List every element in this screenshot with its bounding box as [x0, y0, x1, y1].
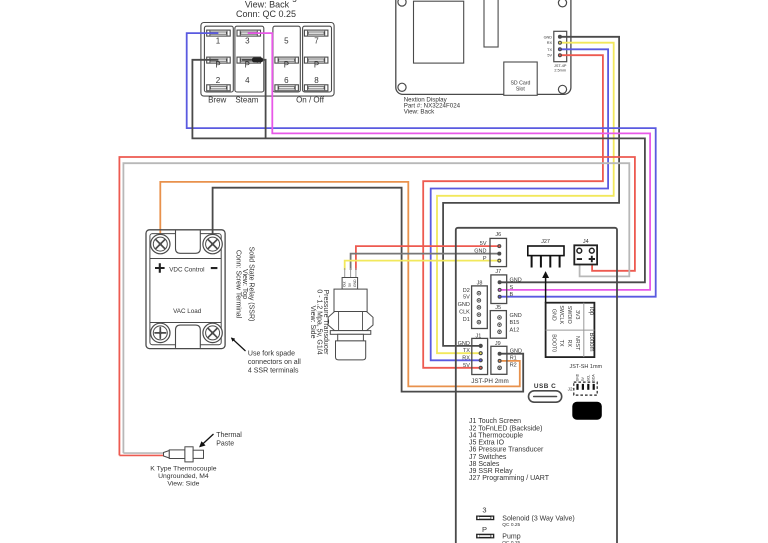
svg-text:NRST: NRST [574, 336, 580, 351]
svg-text:J7 Switches: J7 Switches [469, 454, 507, 461]
QC terminal 2 [207, 85, 231, 91]
svg-text:P: P [245, 61, 250, 70]
Nextion mounting hole BR [558, 85, 566, 93]
switch panel caption [236, 0, 296, 19]
svg-text:P: P [482, 525, 487, 534]
svg-text:GND: GND [510, 349, 522, 355]
svg-text:TX: TX [547, 48, 552, 52]
svg-text:B: B [510, 292, 514, 298]
svg-text:Slot: Slot [516, 87, 525, 93]
QC terminal 3 [237, 30, 261, 36]
QC terminal 7 [304, 30, 328, 36]
svg-text:2.5mm: 2.5mm [554, 69, 566, 73]
svg-text:SCL: SCL [586, 375, 590, 382]
svg-text:Pump: Pump [502, 534, 520, 541]
wire: Brew terminal 1 (blue) to J7 B [187, 33, 656, 297]
wire: Steam terminal 3 (magenta) to J7 S [248, 33, 650, 290]
svg-text:J5 Extra IO: J5 Extra IO [469, 440, 505, 447]
QC terminal 6 [275, 85, 299, 91]
switch On/Off body (7/8) [303, 26, 332, 92]
Nextion screen window [414, 1, 464, 63]
svg-text:Top: Top [588, 306, 594, 316]
svg-text:GND: GND [458, 341, 470, 347]
wire: transducer out (yellow) to J6 P [345, 261, 500, 270]
Nextion caption [404, 97, 461, 116]
svg-text:Use fork spade: Use fork spade [248, 350, 295, 357]
J7 connector [491, 269, 522, 304]
svg-text:J27 Programming / UART: J27 Programming / UART [469, 475, 550, 482]
svg-text:R2: R2 [510, 363, 517, 369]
svg-text:3: 3 [482, 505, 486, 514]
svg-text:connectors on all: connectors on all [248, 359, 301, 366]
svg-text:5V: 5V [348, 282, 352, 287]
SSR screw BR [203, 323, 222, 342]
wire: transducer GND (gray) to J6 GND [351, 254, 500, 270]
wire: Nextion RX (yellow) to J1 TX [437, 43, 614, 354]
svg-text:1: 1 [216, 36, 221, 45]
SSR body [146, 230, 225, 349]
svg-text:5V: 5V [463, 363, 470, 369]
svg-text:J1 Touch Screen: J1 Touch Screen [469, 418, 521, 425]
title (cut off descender) [292, 0, 297, 2]
svg-text:7: 7 [314, 36, 319, 45]
svg-text:GND: GND [550, 309, 556, 321]
SSR face text [155, 263, 217, 315]
svg-text:4: 4 [245, 76, 250, 85]
svg-text:5V: 5V [581, 376, 585, 381]
svg-text:RX: RX [462, 355, 470, 361]
QC terminal P brew [207, 57, 231, 63]
pump legend [476, 525, 521, 543]
svg-text:D2: D2 [463, 288, 470, 294]
svg-text:Thermal: Thermal [216, 432, 242, 439]
J6 connector [474, 232, 506, 266]
svg-text:SWDIO: SWDIO [566, 306, 572, 324]
switch body (5/6) [273, 26, 300, 92]
svg-text:5: 5 [284, 36, 289, 45]
connector legend list [469, 418, 550, 482]
svg-text:GND: GND [353, 279, 357, 287]
svg-text:P: P [483, 256, 487, 262]
J27 header [528, 239, 564, 267]
wire blob on steam P terminal [252, 58, 263, 63]
svg-text:Conn: Screw Terminal: Conn: Screw Terminal [235, 250, 242, 319]
switch labels [208, 96, 325, 105]
svg-text:P: P [314, 61, 319, 70]
QC terminal P col4 [304, 57, 328, 63]
svg-text:Bottom: Bottom [588, 333, 594, 352]
svg-text:B15: B15 [510, 320, 520, 326]
svg-text:Ungrounded, M4: Ungrounded, M4 [158, 473, 209, 480]
svg-text:8: 8 [314, 76, 319, 85]
J5 connector [490, 305, 521, 338]
svg-text:5V: 5V [547, 54, 552, 58]
wire: Brew P (black) to J7 GND [192, 60, 645, 282]
Nextion display board [396, 0, 571, 94]
SSR screw TL [151, 234, 170, 253]
wire: thermocouple red to J4 + [119, 157, 635, 455]
svg-text:View: Back: View: Back [404, 109, 435, 116]
switch Steam body [235, 26, 264, 92]
svg-text:J27: J27 [541, 239, 550, 245]
main controller board [456, 228, 617, 543]
USB C connector [529, 383, 562, 402]
svg-text:View: Side: View: Side [309, 306, 316, 339]
Nextion connector pins [558, 35, 562, 57]
svg-text:6: 6 [284, 76, 289, 85]
svg-text:SWCLK: SWCLK [558, 305, 564, 324]
svg-text:On / Off: On / Off [296, 96, 325, 105]
buzzer (black block) [572, 402, 602, 420]
wire: thermocouple pair horizontal to probe [119, 453, 166, 455]
wire: SSR - (black) to J9 GND [213, 188, 524, 392]
svg-text:Out: Out [343, 281, 347, 287]
QC terminal P steam [237, 57, 261, 63]
Nextion mounting hole BL [398, 83, 406, 91]
svg-text:g: g [292, 0, 297, 2]
svg-text:4 SSR terminals: 4 SSR terminals [248, 367, 299, 374]
svg-text:JST-4P: JST-4P [554, 64, 567, 68]
wire: Nextion GND (black) to J1 GND [443, 37, 619, 346]
svg-text:TX: TX [463, 348, 470, 354]
J4 connector [574, 239, 597, 264]
svg-text:3V3: 3V3 [574, 310, 580, 319]
solenoid legend [476, 505, 575, 528]
svg-text:P: P [284, 61, 289, 70]
switch panel outer body [201, 23, 334, 97]
wire: Nextion 5V (red) to J1 5V [423, 55, 603, 368]
switch Brew body [204, 26, 233, 92]
svg-text:GND: GND [510, 277, 522, 283]
svg-text:3: 3 [245, 36, 250, 45]
wire: Nextion TX (blue) to J1 RX [431, 49, 608, 360]
svg-text:JST-SH 1mm: JST-SH 1mm [569, 364, 602, 370]
arrow from table to J27 [545, 273, 547, 303]
Nextion mounting hole TL [398, 0, 406, 6]
svg-text:Brew: Brew [208, 96, 226, 105]
thermal paste note + arrow [200, 432, 242, 448]
svg-text:P: P [215, 61, 220, 70]
svg-text:J7: J7 [495, 269, 501, 275]
svg-text:J4: J4 [583, 239, 589, 245]
svg-text:S: S [510, 285, 514, 291]
JST-PH label [471, 378, 508, 385]
svg-text:GND: GND [576, 373, 580, 381]
svg-text:GND: GND [544, 35, 553, 39]
svg-text:Solenoid (3 Way Valve): Solenoid (3 Way Valve) [502, 515, 574, 522]
pressure transducer rotated caption [309, 289, 329, 355]
svg-text:5V: 5V [463, 295, 470, 301]
svg-text:CLK: CLK [459, 309, 470, 315]
svg-text:2: 2 [216, 76, 221, 85]
svg-text:GND: GND [474, 249, 486, 255]
svg-text:J9 SSR Relay: J9 SSR Relay [469, 468, 513, 475]
J2 connector (dashed) [568, 373, 598, 395]
svg-text:J4 Thermocouple: J4 Thermocouple [469, 432, 523, 439]
svg-text:GND: GND [458, 302, 470, 308]
QC terminal 1 [207, 30, 231, 36]
svg-text:SDA: SDA [592, 374, 596, 382]
J8 connector [458, 280, 488, 328]
svg-text:TX: TX [558, 340, 564, 347]
svg-text:R1: R1 [510, 356, 517, 362]
wire: Steam P (black) joins GND run [242, 60, 266, 139]
Nextion mounting hole TR [558, 0, 566, 7]
SSR note + arrow [232, 338, 302, 374]
JST-SH label [569, 364, 602, 370]
svg-text:VAC Load: VAC Load [173, 308, 202, 315]
svg-text:View: Side: View: Side [167, 480, 199, 487]
svg-text:VDC Control: VDC Control [169, 266, 204, 273]
J9 connector [491, 341, 522, 375]
svg-text:USB C: USB C [534, 383, 556, 390]
thermocouple probe [164, 447, 204, 462]
svg-text:BOOT0: BOOT0 [550, 334, 556, 352]
wire: thermocouple gray to J4 - [123, 163, 629, 453]
SSR screw TR [203, 234, 222, 253]
svg-text:Steam: Steam [235, 96, 258, 105]
QC terminal 8 [304, 85, 328, 91]
pressure transducer bare leads [345, 268, 356, 279]
svg-text:RX: RX [566, 340, 572, 348]
wire: transducer 5V (red) to J6 5V [356, 246, 499, 270]
svg-text:Paste: Paste [216, 440, 234, 447]
svg-text:A12: A12 [510, 327, 520, 333]
SSR screw BL [151, 323, 170, 342]
svg-text:D1: D1 [463, 317, 470, 323]
Nextion JST-4P connector [544, 31, 567, 72]
svg-text:J2: J2 [568, 387, 573, 392]
svg-text:J6 Pressure Transducer: J6 Pressure Transducer [469, 447, 544, 454]
thermocouple caption [150, 466, 216, 488]
pressure transducer body [328, 278, 373, 360]
svg-text:J2 ToFnLED (Backside): J2 ToFnLED (Backside) [469, 425, 542, 432]
svg-text:GND: GND [510, 313, 522, 319]
svg-text:5V: 5V [480, 241, 487, 247]
svg-text:J6: J6 [495, 232, 501, 238]
SSR rotated caption [235, 247, 255, 322]
programming pinout table [546, 303, 595, 357]
svg-text:Conn: QC 0.25: Conn: QC 0.25 [236, 9, 296, 19]
QC terminal P col3 [275, 57, 299, 63]
svg-text:K Type Thermocouple: K Type Thermocouple [150, 466, 216, 473]
svg-text:JST-PH 2mm: JST-PH 2mm [471, 378, 508, 385]
svg-text:J8 Scales: J8 Scales [469, 461, 500, 468]
switch pin numbers [215, 36, 319, 85]
svg-text:QC 0.25: QC 0.25 [502, 522, 520, 528]
svg-text:View: Back: View: Back [245, 0, 290, 10]
J1 connector [458, 334, 488, 375]
Nextion side rectangle [484, 0, 498, 47]
SD card slot [504, 62, 537, 95]
wire: SSR + (orange) to J9 R1 [160, 182, 520, 387]
svg-text:RX: RX [547, 41, 553, 45]
